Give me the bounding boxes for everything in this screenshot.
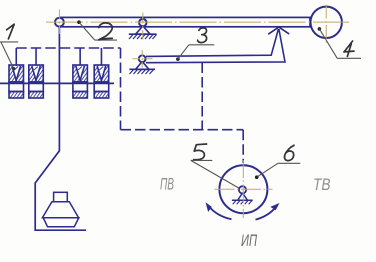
shaft line through clutches bbox=[0, 82, 114, 84]
clutch C2 bbox=[29, 65, 44, 98]
axis centerline at left journal bbox=[58, 10, 60, 35]
lever 3 (feeler lever with arrow tip touching bar 2) bbox=[146, 29, 285, 63]
svg-text:ПВ: ПВ bbox=[160, 176, 174, 194]
axis centerline at pivot of lever 2 bbox=[142, 13, 144, 40]
label 3 bbox=[176, 28, 214, 61]
dashed control wire: horizontal over clutches bbox=[16, 47, 120, 49]
control stub wires from clutches up to dashed line bbox=[16, 48, 101, 65]
label 4 bbox=[318, 27, 361, 58]
axis centerline at handwheel 4 bbox=[325, 5, 327, 44]
centerline of shaft 2 (axis, dash-dot) bbox=[46, 5, 349, 219]
svg-text:ТВ: ТВ bbox=[313, 176, 331, 194]
clutch C4 bbox=[94, 65, 109, 98]
axis centerline of shaft 2 (horizontal dash-dot) bbox=[46, 21, 349, 23]
dashed control wire: middle vertical from lever 3 bbox=[201, 63, 203, 130]
bar / lever 2 (top shaft drawn as long thin bar) bbox=[60, 17, 310, 26]
rotation arrow right (cw) bbox=[256, 203, 280, 220]
axis centerline at pivot of lever 3 (horizontal) bbox=[133, 58, 153, 60]
disc 6 (big circle bottom) bbox=[219, 165, 267, 213]
dashed control wire: bottom horizontal bbox=[121, 129, 244, 131]
label 2 bbox=[77, 20, 117, 40]
dashed control wire: right vertical down to disc 6 bbox=[242, 130, 244, 163]
rotation arrow left (ccw) bbox=[206, 202, 232, 219]
label 1 bbox=[0, 24, 18, 70]
label 5 bbox=[191, 144, 239, 188]
journal circle at left end of bar 2 bbox=[55, 18, 64, 27]
vertical shaft wire from journal down to clutch block bbox=[35, 27, 86, 230]
pivot 5 inside disc bbox=[232, 186, 253, 204]
pivot support of lever 3 bbox=[129, 55, 155, 74]
bell / funnel on lower shaft bbox=[42, 192, 78, 226]
handwheel / dial 4 (big circle) bbox=[311, 7, 342, 38]
dashed control wire: left vertical bbox=[120, 48, 122, 130]
axis centerline of disc 6 (vertical) bbox=[242, 160, 244, 218]
axis centerline at pivot of lever 3 (vertical) bbox=[141, 50, 143, 68]
clutch C3 bbox=[73, 65, 88, 98]
arrow tip of lever 3 bbox=[269, 27, 289, 34]
svg-text:ИП: ИП bbox=[241, 232, 257, 250]
label 6 bbox=[255, 145, 300, 179]
pivot support of lever 2 bbox=[129, 19, 157, 39]
clutch C1 bbox=[9, 65, 24, 98]
axis centerline of disc 6 (horizontal) bbox=[215, 188, 273, 190]
